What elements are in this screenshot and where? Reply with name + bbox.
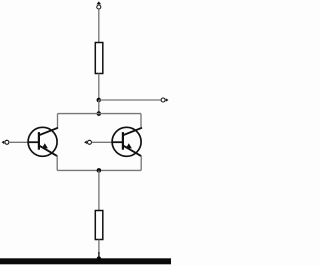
- transistor Q1 (NPN, left): [28, 127, 58, 156]
- node A junction dot: [97, 98, 102, 103]
- ground bus bar: [0, 258, 171, 264]
- wire: emitter rail (bottom): [57, 169, 141, 171]
- resistor R1: [95, 43, 103, 74]
- wire: rail to Q2 collector: [140, 114, 142, 129]
- node D junction at ground bus: [97, 256, 101, 260]
- wire: R2 bottom to ground bus: [98, 240, 100, 255]
- wire: darker lead into ground bus: [98, 252, 100, 260]
- wire: collector rail (top): [58, 113, 142, 115]
- wire: Q2 emitter down to emitter rail: [140, 156, 142, 170]
- wire: R1 bottom to node A: [98, 74, 100, 101]
- wire: node C down to R2 top: [98, 170, 100, 211]
- wire: node A down to node B: [98, 100, 100, 114]
- terminal P3 (input port, left): [2, 140, 9, 144]
- resistor R2: [95, 211, 103, 240]
- wire: Q1 emitter down to emitter rail: [56, 156, 58, 170]
- terminal P2 (output port, right): [161, 98, 168, 102]
- node C junction dot: [97, 168, 102, 173]
- wire: P1 to R1 top: [98, 9, 100, 43]
- wire: P4 to Q2 base: [92, 141, 113, 143]
- terminal P4 (input port, middle): [84, 140, 91, 144]
- wire: node A to output terminal: [99, 99, 161, 101]
- transistor Q2 (NPN, right): [112, 127, 142, 156]
- wire: rail to Q1 collector: [57, 114, 59, 129]
- wire: P3 to Q1 base: [9, 141, 28, 143]
- terminal P1 (top supply port): [97, 1, 102, 9]
- node B junction dot: [97, 111, 102, 116]
